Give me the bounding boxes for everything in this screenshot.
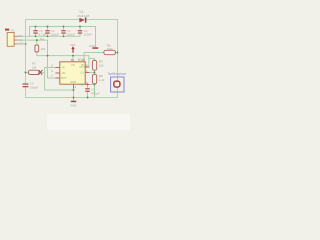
connector pins xyxy=(14,36,18,44)
junction C4 top xyxy=(47,26,49,28)
junction R2 bottom xyxy=(94,84,96,86)
connector X1 name bar xyxy=(5,29,9,31)
junction gnd rail IC1 xyxy=(73,97,75,99)
svg-text:BY: BY xyxy=(81,63,85,67)
junction R3-R2 node xyxy=(94,72,96,74)
IC left pin stubs xyxy=(55,68,59,79)
wire VCC top rail H1 with corners xyxy=(26,20,118,84)
wire H mid xyxy=(18,40,56,78)
junction IC1 VS pin xyxy=(72,55,74,57)
wire H6 out xyxy=(84,53,104,59)
junction node A crossing xyxy=(47,55,49,57)
microphone box xyxy=(111,77,124,92)
junction R1 / mic plus xyxy=(117,52,119,54)
microphone element xyxy=(114,81,120,87)
gnd symbol bottom xyxy=(71,101,76,103)
svg-text:+IN: +IN xyxy=(61,71,65,75)
capacitor C2 xyxy=(78,30,82,31)
junction C3 bottom xyxy=(63,35,65,37)
svg-text:10k: 10k xyxy=(99,63,104,67)
resistor R2 xyxy=(92,74,96,84)
wire pin mid right xyxy=(89,72,94,74)
wire R6 left stub xyxy=(26,72,45,74)
wire GND bottom rail xyxy=(26,87,118,97)
svg-text:100nF: 100nF xyxy=(84,33,93,37)
IC right pin stubs xyxy=(85,67,89,85)
svg-text:G8: G8 xyxy=(80,82,84,86)
svg-text:Taz/Microphone: Taz/Microphone xyxy=(108,72,127,76)
wire R3 R2 joint xyxy=(94,70,96,74)
svg-text:BYP: BYP xyxy=(61,76,66,80)
wire IC gnd pin down xyxy=(73,89,75,101)
wire pin2 gnd loop xyxy=(45,68,74,91)
svg-text:-IN: -IN xyxy=(61,66,65,70)
junction C2 top xyxy=(79,26,81,28)
svg-text:VS: VS xyxy=(71,63,75,67)
svg-text:X1: X1 xyxy=(11,28,15,32)
junction C3 top xyxy=(63,26,65,28)
junction C8 top xyxy=(87,84,89,86)
capacitor C5 xyxy=(33,30,37,31)
svg-text:470pF: 470pF xyxy=(91,91,100,95)
svg-text:GND: GND xyxy=(70,80,76,84)
lighter panel bottom right xyxy=(47,114,130,130)
wire pin lower right xyxy=(89,84,94,86)
svg-text:100nF: 100nF xyxy=(67,33,76,37)
svg-text:VCC: VCC xyxy=(70,43,75,47)
svg-text:10k: 10k xyxy=(40,47,45,51)
svg-text:AUDIO: AUDIO xyxy=(18,42,24,46)
junction IC1 gnd / pin2 wire xyxy=(73,89,75,91)
junction gnd rail C8 xyxy=(87,97,89,99)
wire C8 stubs xyxy=(87,85,89,98)
wire R3 top branch xyxy=(89,59,95,61)
wire cap C5 stubs xyxy=(35,27,37,37)
svg-text:R4: R4 xyxy=(40,37,44,41)
svg-text:1N4148: 1N4148 xyxy=(77,14,90,18)
capacitor C3 xyxy=(61,30,65,31)
wire top pin V73 xyxy=(72,56,74,59)
wire cap C3 stubs xyxy=(63,27,65,37)
capacitor C6 polarized xyxy=(23,83,29,84)
svg-text:1.2k: 1.2k xyxy=(99,78,105,82)
IC pin numbers xyxy=(51,59,88,89)
junction C4 bottom xyxy=(47,35,49,37)
wire R2 bottom to gnd xyxy=(94,84,96,98)
diode D1 xyxy=(79,18,84,23)
junction connector pin3 / audio net xyxy=(25,43,27,45)
junction C5 bottom xyxy=(35,35,37,37)
wire rail H3 xyxy=(18,34,80,36)
wire rail H2 xyxy=(30,27,96,48)
svg-text:100µF: 100µF xyxy=(30,86,39,90)
connector pin labels xyxy=(18,34,24,46)
svg-text:GND: GND xyxy=(70,103,76,107)
wire cap C2 top stub xyxy=(79,27,81,30)
svg-text:100nF: 100nF xyxy=(51,33,60,37)
IC bottom pin stub xyxy=(73,84,75,88)
capacitor C8 xyxy=(85,88,89,89)
IC pin names inside xyxy=(61,63,85,86)
wire H5 xyxy=(37,52,89,67)
resistor R4 xyxy=(35,45,39,52)
wire cap C4 stubs xyxy=(47,27,49,37)
wire R1 right xyxy=(115,52,117,54)
junction R4 top xyxy=(36,39,38,41)
capacitor C4 xyxy=(45,30,49,31)
IC top pin stubs xyxy=(73,59,84,62)
junction C5 top xyxy=(35,26,37,28)
wire R4 top stub xyxy=(36,40,38,45)
junction R6 tap xyxy=(25,72,27,74)
svg-text:G1: G1 xyxy=(80,71,84,75)
resistor R3 xyxy=(92,60,96,70)
svg-text:1M: 1M xyxy=(32,66,37,70)
op-amp IC1 box xyxy=(60,62,85,84)
connector X1 body xyxy=(7,33,14,47)
background xyxy=(0,0,130,130)
